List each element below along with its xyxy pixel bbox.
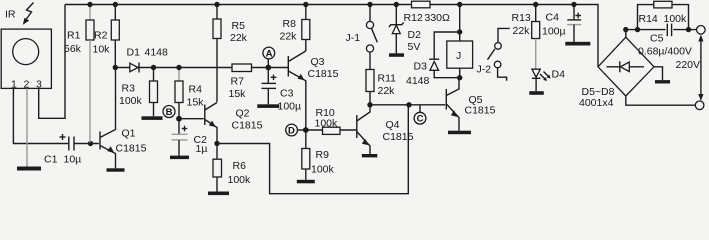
wire: bridge right to ground [654,67,663,80]
relay contact J-1 [346,5,378,70]
svg-text:100k: 100k [315,117,339,129]
svg-text:Q2: Q2 [236,108,250,120]
capacitor C4 [542,5,581,42]
transistor Q3 [288,51,338,130]
IR beam arrow [23,3,34,25]
node: R3 top [151,65,156,70]
svg-text:R1: R1 [67,30,81,42]
svg-text:C1815: C1815 [116,143,147,155]
ground (C2) [170,156,189,160]
220V mains label with arrows [676,35,704,102]
node: R4 top [176,65,181,70]
svg-text:B: B [166,107,173,118]
relay coil J [447,5,473,78]
node: rail relay [457,2,462,7]
node B [163,106,182,122]
svg-text:100k: 100k [119,95,143,107]
resistor R7 [229,64,252,100]
svg-text:C1815: C1815 [465,105,496,117]
node: rail R8 [303,2,308,7]
svg-text:A: A [266,49,273,60]
svg-text:R12: R12 [404,12,423,24]
capacitor C1 [44,134,81,166]
ground (D4) [529,91,544,95]
node C [406,102,426,125]
svg-text:100µ: 100µ [542,26,566,38]
ground (C4) [565,42,590,46]
resistor R1 [64,5,94,143]
svg-text:4148: 4148 [406,75,430,87]
node: rail D2 [394,2,399,7]
svg-text:Q3: Q3 [311,56,325,68]
ground (R9) [297,180,315,184]
resistor R5 [213,5,248,45]
svg-text:R4: R4 [189,84,203,96]
svg-text:R8: R8 [283,18,297,30]
resistor R12 [404,1,451,24]
ground (D2) [389,53,404,57]
node: Q1 base junction [88,141,93,146]
wire: bridge bottom to AC terminal [626,96,696,105]
node: R14 right [686,27,691,32]
svg-text:10µ: 10µ [64,154,82,166]
IR receiver module [1,29,51,90]
svg-text:R13: R13 [512,12,531,24]
node: R11 Q4-collector junction [367,102,372,107]
svg-text:100k: 100k [664,13,688,25]
node: rail R2 [113,2,118,7]
node A [263,47,275,70]
node: relay bottom D3 branch [457,75,462,80]
svg-text:R11: R11 [378,73,397,85]
svg-text:R2: R2 [94,30,108,42]
svg-text:C: C [417,114,424,125]
resistor R14 [638,1,689,29]
terminal: AC input bottom [695,101,704,110]
diode D3 [406,32,460,87]
svg-text:100k: 100k [311,164,335,176]
svg-text:C3: C3 [280,88,294,100]
ground (Q5 emitter) [448,131,471,135]
transistor Q4 [357,105,414,154]
bridge rectifier D5~D8 [579,37,654,109]
transistor Q2 [205,103,263,144]
ground (R6) [208,192,229,196]
svg-text:C4: C4 [546,12,560,24]
resistor R13 [512,5,540,70]
terminal: AC input top [697,26,706,35]
wire: module pin 1 to C1 [13,88,68,143]
svg-text:4148: 4148 [145,47,169,59]
svg-text:56k: 56k [64,43,82,55]
resistor R4 [175,68,204,119]
resistor R6 [213,144,251,192]
wire: bridge top to AC terminal [626,30,697,38]
ground (module pin 2) [17,167,41,171]
ground (Q1 emitter) [107,168,125,171]
svg-text:D4: D4 [552,69,566,81]
svg-text:22k: 22k [513,25,531,37]
node: rail R1 [87,2,92,7]
wire: top supply rail [65,5,598,67]
svg-text:220V: 220V [676,59,701,71]
node: R2 D1 Q1-collector junction [113,65,118,70]
svg-text:5V: 5V [408,41,421,53]
svg-text:100k: 100k [228,174,252,186]
transistor Q1 [100,68,147,169]
wire: detector line D1 to R7 [115,67,232,69]
svg-text:Q1: Q1 [122,128,136,140]
svg-text:D: D [288,126,295,137]
node: rail C4 [571,2,576,7]
svg-text:R9: R9 [316,149,330,161]
resistor R3 [119,68,158,117]
wire: node C line to Q5 base [370,104,445,106]
node: rail J-1 [367,2,372,7]
node: rail R13 [533,2,538,7]
zener diode D2 [389,5,421,54]
node: relay top D3 branch [457,29,462,34]
wire: module pin 2 to ground [26,88,28,166]
wire: feedback Q2 emitter to node C line [217,105,408,194]
svg-text:R6: R6 [233,160,247,172]
svg-text:10k: 10k [93,44,111,56]
svg-text:J-2: J-2 [477,64,492,76]
resistor R2 [93,5,120,68]
svg-text:15k: 15k [187,97,205,109]
svg-text:1µ: 1µ [196,143,208,155]
svg-text:R14: R14 [639,13,658,25]
ground (R3) [142,116,163,120]
svg-text:22k: 22k [280,31,298,43]
svg-text:R7: R7 [231,76,245,88]
svg-text:22k: 22k [230,32,248,44]
ground (bridge negative) [655,80,670,83]
svg-text:Q4: Q4 [386,119,400,131]
svg-text:15k: 15k [229,88,247,100]
svg-text:C5: C5 [650,33,664,45]
relay contact J-2 [477,28,510,80]
svg-text:22k: 22k [378,85,396,97]
node: rail R5 [214,2,219,7]
svg-text:C1815: C1815 [308,68,339,80]
svg-text:J: J [456,50,461,62]
wire: C1 to Q1 base [74,143,99,145]
svg-text:R5: R5 [232,20,246,32]
capacitor C5 [638,24,692,58]
resistor R8 [280,5,310,52]
svg-text:C1815: C1815 [383,131,414,143]
svg-text:C1: C1 [44,154,58,166]
resistor R10 [306,107,357,134]
wire: module pin 3 to top rail [39,5,65,119]
ground (Q4 emitter) [362,154,378,157]
node: Q2 emitter junction [214,141,219,146]
svg-text:4001x4: 4001x4 [579,97,614,109]
wire: R7 to node A [252,67,289,69]
wire: node B to Q2 base [179,118,204,120]
svg-text:D3: D3 [414,61,428,73]
resistor R11 [366,70,396,105]
svg-text:J-1: J-1 [346,32,361,44]
transistor Q5 [446,78,495,131]
wire: R5 to Q2 collector [216,39,218,103]
ground (C3) [257,104,279,108]
svg-text:330Ω: 330Ω [425,12,451,24]
LED D4 [532,69,565,92]
svg-text:0.68µ/400V: 0.68µ/400V [638,46,692,58]
node: bridge top [623,27,628,32]
svg-text:R3: R3 [122,83,136,95]
svg-text:D1: D1 [127,47,141,59]
svg-text:C1815: C1815 [232,120,263,132]
svg-text:IR: IR [5,9,16,21]
diode D1 [127,47,169,73]
node: R14 left [635,27,640,32]
svg-text:D2: D2 [408,29,422,41]
resistor R9 [302,130,335,180]
node D [286,124,309,136]
capacitor C2 [172,119,208,156]
capacitor C3 [262,68,302,113]
svg-text:100µ: 100µ [278,101,302,113]
